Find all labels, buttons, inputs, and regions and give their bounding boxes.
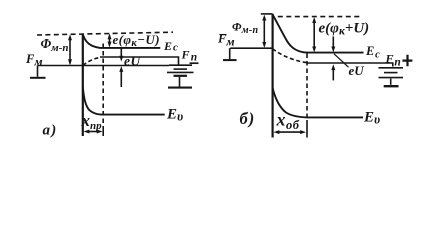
svg-text:e(φк−U): e(φк−U) [113, 32, 160, 49]
svg-text:а): а) [43, 123, 58, 139]
svg-text:eU: eU [124, 54, 141, 69]
svg-text:e(φк+U): e(φк+U) [319, 20, 370, 37]
svg-text:Ec: Ec [163, 39, 179, 54]
svg-text:Eυ: Eυ [166, 107, 183, 124]
svg-text:eU: eU [349, 63, 365, 78]
svg-text:б): б) [240, 109, 256, 128]
svg-text:Eυ: Eυ [363, 110, 380, 127]
